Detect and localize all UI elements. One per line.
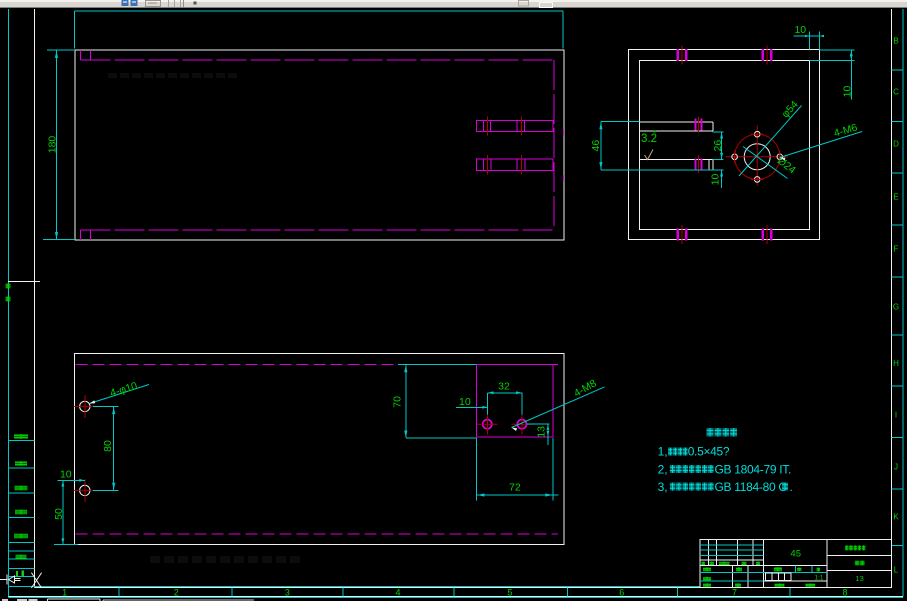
note line 2	[658, 462, 791, 476]
note line 1	[658, 445, 730, 459]
svg-text:B: B	[893, 37, 898, 46]
view2 bottom edge hidden slot bars B	[763, 229, 772, 241]
title block revision area rows (cyan)	[700, 545, 763, 560]
dimension 10 wall right	[810, 50, 855, 99]
view1 slot S1 hole centerlines (red)	[487, 117, 521, 136]
dimension 10 boss	[456, 396, 487, 409]
svg-text:10: 10	[794, 24, 806, 36]
left border small table texts	[14, 434, 28, 577]
title block sheets row	[763, 581, 827, 587]
frame bottom zone band top line (cyan)	[9, 586, 701, 588]
dimension 80	[93, 406, 119, 490]
svg-text:3.2: 3.2	[641, 133, 657, 145]
view2 center crosshair horizontal (red)	[726, 156, 789, 158]
surface finish 3.2	[641, 130, 657, 159]
view2 side slot centerline lower (red)	[698, 156, 700, 174]
dimension 32	[487, 380, 522, 414]
left edge green marks	[6, 284, 11, 302]
frame inner border right (white)	[891, 9, 893, 588]
svg-text:10: 10	[459, 396, 471, 408]
toolbar field outlines	[519, 1, 553, 8]
toolbar blue icon 1	[122, 0, 129, 6]
view1 left step edge lines bottom	[81, 230, 91, 240]
view2 inner outline	[640, 61, 810, 230]
svg-text:10: 10	[60, 469, 72, 481]
svg-text:4: 4	[395, 587, 400, 597]
view2 side slot hidden bars upper	[696, 119, 702, 131]
toolbar separators	[169, 0, 184, 7]
svg-text:3,: 3,	[658, 480, 668, 494]
dimension 10 slot	[710, 170, 724, 188]
UCS icon	[0, 573, 42, 588]
svg-text:1: 1	[62, 587, 67, 597]
view2 outer outline	[629, 50, 820, 240]
bottom zone separators	[119, 588, 790, 597]
dimension 180	[43, 50, 75, 240]
view3 hole H1 (phi10)	[74, 395, 97, 418]
view2 center bore circle	[744, 144, 770, 170]
toolbar strip	[0, 0, 907, 8]
view3 hole H2 (phi10)	[74, 479, 97, 502]
title block name cell text	[845, 545, 865, 550]
svg-text:3: 3	[285, 587, 290, 597]
left border tick	[8, 281, 40, 283]
view2 top edge slot centerline A (red)	[681, 46, 683, 65]
title block stage boxes	[766, 573, 824, 582]
leader 4-M8	[512, 377, 605, 431]
note line 3	[658, 480, 793, 494]
svg-text:E: E	[893, 193, 898, 202]
view2 side slot centerline upper (red)	[698, 117, 700, 133]
view2 bottom edge slot centerline B (red)	[766, 225, 768, 244]
view1 slot S1 outline	[477, 121, 554, 132]
leader phi54	[739, 98, 802, 176]
svg-text:32: 32	[498, 380, 510, 392]
svg-text:J: J	[894, 463, 898, 472]
svg-text:46: 46	[590, 140, 602, 152]
svg-text:GB 1184-80 C: GB 1184-80 C	[715, 480, 788, 494]
notes title	[707, 428, 738, 437]
svg-text:72: 72	[509, 482, 521, 494]
svg-text:10: 10	[842, 86, 854, 98]
svg-text:8: 8	[842, 587, 847, 597]
dimension 10 wall top	[794, 24, 824, 50]
left border small table separators	[9, 441, 35, 577]
dimension 50	[53, 480, 78, 544]
view2 center crosshair vertical (red)	[756, 126, 758, 187]
view2 M6 hole top	[751, 131, 763, 137]
view3 outer outline	[75, 354, 564, 545]
svg-text:50: 50	[53, 508, 65, 520]
leader dia24	[743, 147, 798, 179]
view2 side slot lower outline	[640, 159, 714, 169]
leader 4-M6	[780, 122, 862, 161]
view1 hidden inner top edge	[81, 59, 555, 61]
svg-text:2,: 2,	[658, 462, 668, 476]
dimension 46	[590, 122, 724, 170]
frame outer border right (cyan)	[902, 9, 904, 597]
frame outer border bottom (white)	[9, 596, 904, 598]
svg-text:L: L	[894, 566, 899, 575]
view3 hole M8-2	[512, 414, 533, 435]
view2 M6 hole right	[777, 151, 783, 163]
view3 hidden inner bottom edge	[76, 533, 559, 535]
view1 slot S2 outline	[477, 159, 554, 171]
view1 slot S2 hole centerlines (red)	[487, 155, 521, 175]
svg-text:K: K	[893, 513, 899, 522]
dimension 72	[477, 438, 559, 501]
svg-text:7: 7	[732, 587, 737, 597]
frame inner border bottom (white)	[35, 587, 892, 589]
toolbar button	[146, 1, 161, 7]
svg-text:H: H	[893, 359, 899, 368]
svg-text:6: 6	[619, 587, 624, 597]
svg-text:G: G	[893, 303, 899, 312]
dimension 26	[712, 132, 724, 160]
svg-text:.: .	[790, 480, 793, 494]
title block lower-left texts	[703, 567, 742, 587]
view3 hidden inner top edge	[76, 364, 477, 366]
view2 top edge hidden slot bars A	[678, 49, 687, 61]
title block header divider	[700, 565, 827, 567]
dimension 13	[527, 424, 550, 445]
status bar box 1	[48, 599, 101, 601]
toolbar small mark	[194, 2, 197, 5]
status bar box 2	[103, 600, 254, 601]
svg-text:13: 13	[855, 574, 863, 583]
view2 top edge hidden slot bars B	[763, 49, 772, 61]
svg-text:2: 2	[174, 587, 179, 597]
svg-text:70: 70	[391, 396, 403, 408]
toolbar blue icon 2	[131, 0, 138, 6]
view1 top width dimension line (cut off)	[75, 11, 563, 49]
faint watermark top	[108, 73, 237, 78]
leader 4-phi10	[90, 380, 150, 404]
view1 hidden ticks on right wall	[563, 130, 565, 182]
view1 hidden inner right edge	[553, 60, 555, 230]
view3 hole M8-1	[477, 414, 498, 435]
view1 slot S2 hole edges	[484, 159, 526, 171]
svg-text:45: 45	[790, 549, 801, 560]
title block revision area verticals	[709, 540, 764, 588]
title block scale header row	[763, 566, 827, 573]
svg-text:0.5×45?: 0.5×45?	[688, 445, 730, 459]
view2 bottom edge slot centerline A (red)	[681, 225, 683, 244]
svg-text:26: 26	[712, 140, 724, 152]
title block unit cell text	[855, 561, 865, 566]
title block middle column divider	[826, 540, 828, 588]
view2 bolt circle (red)	[735, 134, 780, 179]
svg-text:80: 80	[102, 440, 114, 452]
view2 side slot hidden bars lower	[696, 159, 702, 171]
svg-text:GB 1804-79 IT.: GB 1804-79 IT.	[715, 462, 792, 476]
view2 M6 hole bottom	[751, 177, 763, 183]
title block lower-left rows	[700, 572, 763, 581]
title block right column row lines	[827, 555, 892, 570]
view2 M6 hole left	[732, 151, 738, 163]
svg-text:13: 13	[536, 426, 548, 438]
view2 bottom edge hidden slot bars A	[678, 229, 687, 241]
title block outer rect	[700, 540, 892, 588]
svg-text:1:1: 1:1	[814, 575, 823, 582]
title block lower-left verticals	[733, 566, 749, 588]
svg-text:C: C	[893, 88, 899, 97]
svg-text:180: 180	[47, 136, 59, 154]
frame outer border bottom (cyan)	[9, 597, 904, 599]
dimension 10 left	[58, 469, 85, 482]
svg-text:5: 5	[507, 587, 512, 597]
view1 outer outline	[75, 50, 564, 240]
view1 hidden inner bottom edge	[81, 229, 555, 231]
svg-text:10: 10	[710, 174, 722, 186]
svg-text:D: D	[893, 140, 899, 149]
right zone separators	[892, 70, 903, 546]
dimension 70	[391, 365, 476, 439]
view2 top edge slot centerline B (red)	[766, 46, 768, 65]
frame inner border left (white)	[34, 9, 36, 588]
svg-text:I: I	[895, 411, 897, 420]
view3 boss outline	[477, 365, 553, 437]
faint watermark bottom	[150, 556, 300, 563]
status bar fragment small left	[2, 599, 38, 601]
frame outer border left (cyan)	[8, 9, 10, 598]
view2 side slot upper outline	[640, 122, 714, 131]
view1 left step edge lines top	[81, 50, 91, 60]
view1 slot S1 hole edges	[484, 121, 525, 132]
svg-text:F: F	[894, 245, 899, 254]
title block revision header texts	[701, 562, 760, 566]
svg-text:1,: 1,	[658, 445, 668, 459]
